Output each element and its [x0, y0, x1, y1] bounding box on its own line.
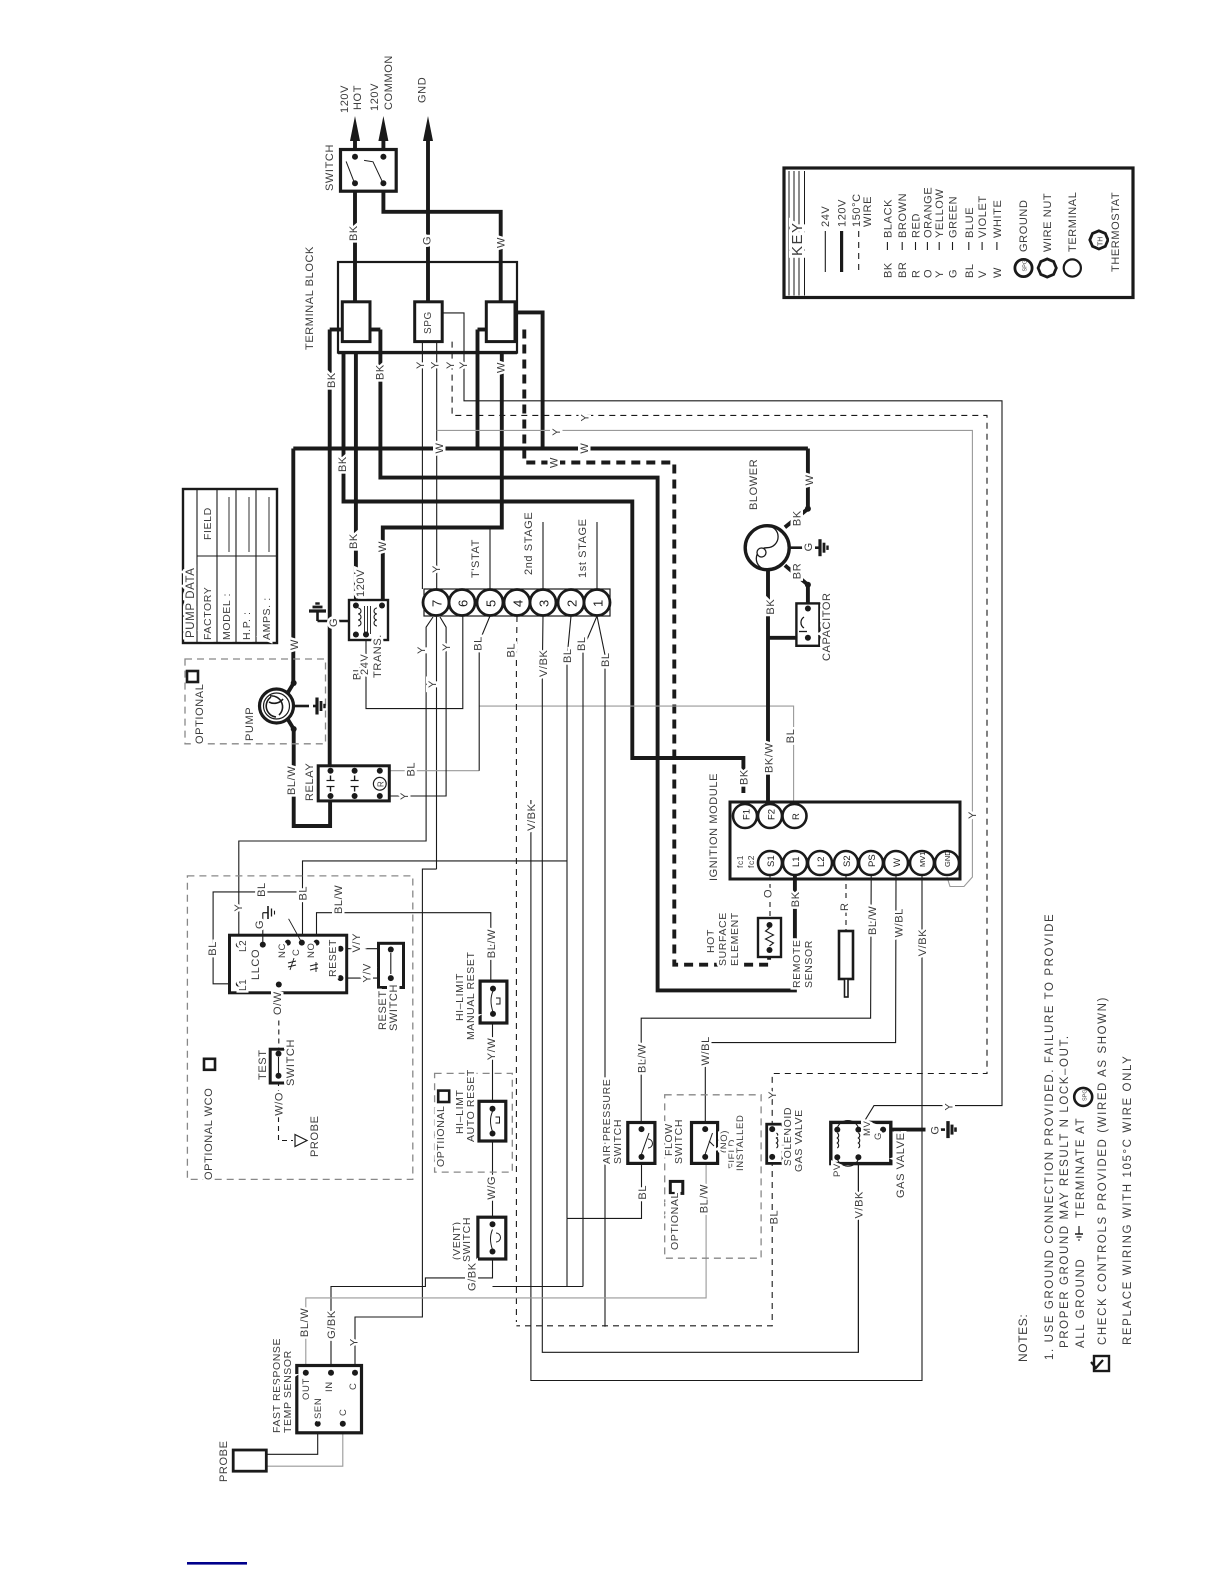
wire BK blower to module F2: [766, 570, 770, 804]
relay: [318, 766, 389, 801]
svg-text:Y: Y: [427, 680, 439, 688]
pump data blank underlines: [228, 497, 230, 552]
note SPG circle: [1074, 1088, 1092, 1106]
svg-text:BL: BL: [600, 652, 612, 667]
svg-text:ORANGE: ORANGE: [922, 187, 934, 238]
wire BK terminal block via bus to ignition module L1: [380, 330, 795, 991]
optional WCO dashed box: [187, 876, 412, 1180]
svg-text:G: G: [328, 618, 340, 627]
svg-text:BK/W: BK/W: [763, 742, 775, 773]
svg-text:120V: 120V: [369, 83, 381, 111]
wire BL horizontal to LLCO C: [303, 861, 568, 943]
svg-text:3: 3: [537, 600, 552, 607]
optional flow switch dashed box: [665, 1095, 761, 1258]
solenoid gas valve: [767, 1124, 783, 1163]
svg-text:fc2: fc2: [746, 855, 756, 868]
svg-text:COMMON: COMMON: [383, 55, 395, 110]
terminal 1: [584, 590, 610, 616]
svg-text:24V: 24V: [359, 654, 371, 675]
svg-text:Y/V: Y/V: [361, 963, 373, 983]
svg-text:Y: Y: [579, 414, 591, 422]
wire 1st stage stub: [596, 522, 598, 590]
svg-text:BL: BL: [964, 263, 976, 278]
svg-text:W/BL: W/BL: [700, 1036, 712, 1065]
key terminal symbol: [1064, 259, 1081, 276]
wire O/W dashed LLCO to test switch: [278, 985, 280, 1053]
svg-text:L2: L2: [238, 940, 249, 952]
svg-text:L1: L1: [791, 856, 802, 867]
svg-text:CAPACITOR: CAPACITOR: [821, 592, 833, 661]
svg-text:SWITCH: SWITCH: [612, 1119, 624, 1164]
flow switch: [692, 1123, 718, 1164]
svg-text:PS: PS: [867, 854, 878, 867]
svg-text:BL: BL: [637, 1185, 649, 1200]
key 120V sample: [840, 231, 843, 272]
svg-text:FACTORY: FACTORY: [202, 587, 214, 640]
wire Y gas valve MV thick ground: [883, 1128, 925, 1132]
svg-text:BK: BK: [882, 262, 894, 278]
svg-text:INSTALLED: INSTALLED: [735, 1115, 746, 1171]
svg-text:OPTIONAL: OPTIONAL: [669, 1192, 681, 1250]
wire W main run pump to blower: [293, 447, 808, 451]
svg-text:TERMINAL BLOCK: TERMINAL BLOCK: [304, 246, 316, 350]
svg-text:WIRE: WIRE: [862, 196, 874, 227]
wire BL junction to ignition module R: [479, 706, 793, 806]
svg-text:W: W: [892, 858, 903, 867]
svg-text:WIRE NUT: WIRE NUT: [1042, 193, 1054, 252]
svg-text:SENSOR: SENSOR: [803, 940, 815, 988]
blower ground G: [789, 546, 806, 549]
arrow 120V COMMON: [381, 135, 385, 157]
svg-text:W: W: [579, 443, 591, 454]
wire sensor bus a to vent: [493, 1286, 584, 1288]
key ground symbol SPG: [1015, 259, 1032, 276]
wire Y relay to terminal 7: [383, 617, 446, 796]
svg-text:120V: 120V: [339, 85, 351, 113]
module terminal F1: [733, 804, 757, 828]
svg-text:O: O: [762, 889, 774, 898]
wire BL/W sensor OUT to flow switch: [306, 1163, 706, 1372]
svg-text:Y: Y: [416, 646, 428, 654]
svg-text:TERMINAL: TERMINAL: [1067, 192, 1079, 252]
svg-text:V/BK: V/BK: [526, 803, 538, 831]
ground symbol at LLCO: [262, 913, 264, 945]
svg-text:MODEL :: MODEL :: [221, 593, 233, 640]
svg-text:W/O: W/O: [274, 1092, 286, 1116]
svg-text:PUMP: PUMP: [244, 707, 256, 741]
svg-text:SEN: SEN: [313, 1398, 324, 1419]
key box: [784, 168, 1133, 298]
vent switch: [478, 1217, 506, 1259]
wire BK terminal block via bus to ignition module F1: [344, 352, 744, 793]
svg-text:SWITCH: SWITCH: [324, 144, 336, 191]
wire BL transformer 24V to terminal 6: [366, 616, 463, 709]
svg-text:RED: RED: [911, 213, 923, 238]
svg-text:BROWN: BROWN: [897, 193, 909, 238]
terminal 2: [558, 590, 584, 616]
svg-text:BLUE: BLUE: [964, 207, 976, 238]
terminal 4: [504, 590, 530, 616]
svg-text:TERMINATE AT: TERMINATE AT: [1075, 1117, 1087, 1218]
svg-text:5: 5: [484, 600, 499, 607]
svg-text:Y: Y: [399, 792, 411, 800]
svg-text:Y: Y: [430, 361, 442, 369]
svg-text:NOTES:: NOTES:: [1016, 1314, 1030, 1362]
svg-text:fc1: fc1: [735, 855, 745, 868]
svg-text:W: W: [289, 639, 301, 650]
arrow 120V HOT: [353, 135, 357, 157]
svg-text:IGNITION MODULE: IGNITION MODULE: [708, 773, 720, 881]
svg-text:BLACK: BLACK: [882, 199, 894, 238]
svg-text:OPTIIONAL: OPTIIONAL: [435, 1106, 447, 1167]
module terminal GND: [935, 851, 959, 875]
test switch: [270, 1049, 287, 1083]
reset switch: [379, 943, 404, 987]
wire BK from switch to terminal block: [353, 183, 357, 302]
svg-text:YELLOW: YELLOW: [934, 189, 946, 238]
svg-text:Y: Y: [458, 361, 470, 369]
module terminal R: [783, 804, 807, 828]
pump motor: [260, 689, 294, 723]
svg-text:PROBE: PROBE: [309, 1115, 321, 1157]
svg-text:L2: L2: [816, 856, 827, 867]
blower pin BR: [785, 565, 808, 585]
pump pin BL/W: [287, 718, 294, 729]
svg-text:Y: Y: [349, 1338, 361, 1346]
svg-text:4: 4: [511, 600, 526, 607]
wire BR blower to capacitor: [806, 585, 810, 609]
svg-text:VIOLET: VIOLET: [977, 195, 989, 238]
wire BK blower junction to capacitor: [767, 636, 808, 640]
svg-text:Y: Y: [967, 811, 979, 819]
svg-text:1st STAGE: 1st STAGE: [577, 518, 589, 578]
svg-text:OPTIONAL: OPTIONAL: [194, 684, 206, 744]
svg-text:PROPER GROUND MAY RESULT N: PROPER GROUND MAY RESULT N LOCK–OUT.: [1059, 1034, 1071, 1348]
gas valve: [831, 1122, 891, 1163]
svg-text:TRANS.: TRANS.: [372, 634, 384, 678]
svg-text:W/G: W/G: [486, 1176, 498, 1200]
terminal block lug 3: [478, 328, 487, 332]
svg-text:120V: 120V: [355, 569, 367, 597]
wire BL/W LLCO NO to hi-limit manual reset: [317, 913, 491, 989]
module terminal S2: [834, 851, 858, 875]
wire Y tee to sensor run: [355, 869, 437, 1373]
svg-text:W/BL: W/BL: [893, 908, 905, 937]
svg-text:C: C: [291, 949, 302, 956]
LLCO NC contact: [288, 961, 296, 963]
wire G/BK vent switch to sensor IN: [331, 1252, 493, 1373]
wire V/Y LLCO reset to reset switch: [341, 948, 391, 950]
svg-text:Y: Y: [943, 1103, 955, 1111]
ground symbol at transformer: [318, 620, 350, 623]
svg-text:Y/W: Y/W: [486, 1038, 498, 1061]
wire Y/W hi-limit manual to auto reset: [492, 1014, 494, 1109]
svg-text:G: G: [873, 1132, 884, 1140]
fast response temp sensor: [297, 1366, 362, 1433]
thermostat terminal strip outline: [424, 589, 610, 616]
module terminal F2: [758, 804, 782, 828]
transformer 24V TRANS: [349, 600, 388, 640]
svg-text:THERMOSTAT: THERMOSTAT: [1110, 192, 1122, 272]
wire BL LLCO L1 loop: [213, 892, 302, 984]
svg-text:Y: Y: [767, 1091, 779, 1099]
blue underline mark: [187, 1562, 247, 1565]
svg-text:V: V: [977, 270, 989, 278]
svg-text:BL/W: BL/W: [299, 1308, 311, 1337]
svg-text:BK: BK: [791, 510, 803, 526]
pump pin W: [287, 683, 294, 694]
svg-text:OUT: OUT: [301, 1378, 312, 1400]
svg-text:V/BK: V/BK: [853, 1191, 865, 1219]
terminal block lug 1: [330, 328, 343, 332]
svg-text:R: R: [791, 813, 802, 820]
wire W riser from terminal block left lug: [476, 330, 480, 449]
terminal block outline: [338, 262, 517, 353]
svg-text:BR: BR: [791, 563, 803, 579]
optional pump dashed box: [185, 659, 326, 744]
wire BL/W module PS to air pressure switch: [641, 876, 871, 1129]
wire V/BK strip3 to gas valve: [542, 616, 858, 1352]
svg-text:W: W: [496, 237, 508, 248]
svg-text:GND: GND: [943, 850, 952, 867]
note checkbox checked: [1094, 1356, 1109, 1371]
svg-text:G: G: [930, 1125, 942, 1134]
ground symbol at gas valve: [934, 1128, 945, 1131]
wire BL relay contact to junction: [383, 770, 479, 772]
svg-text:BL/W: BL/W: [637, 1044, 649, 1073]
relay coil R: [373, 777, 386, 790]
key wire nut symbol: [1038, 259, 1056, 277]
svg-text:O: O: [922, 269, 934, 278]
svg-text:W: W: [377, 541, 389, 552]
wire BL drop to vent bus: [566, 1218, 568, 1286]
wire W/G auto reset to vent switch: [492, 1134, 494, 1225]
wire GND green from arrow to SPG lug: [426, 137, 430, 302]
terminal 6: [449, 590, 475, 616]
wire Y SPG via outer right bus to gas valve MV: [442, 313, 1002, 1131]
svg-text:G/BK: G/BK: [326, 1310, 338, 1339]
svg-text:BK: BK: [348, 533, 360, 549]
svg-text:BK: BK: [375, 364, 387, 380]
terminal 3: [530, 590, 556, 616]
wire BL air pressure switch to strip2 line: [567, 1157, 642, 1219]
svg-text:BL/W: BL/W: [286, 766, 298, 795]
svg-text:S2: S2: [842, 855, 853, 867]
svg-text:TEST: TEST: [257, 1049, 269, 1080]
terminal block lug SPG: [415, 302, 443, 342]
svg-text:BL: BL: [207, 941, 219, 956]
svg-text:GROUND: GROUND: [1018, 200, 1030, 253]
svg-text:1. USE GROUND CONNECTION PR: 1. USE GROUND CONNECTION PROVIDED. FAILU…: [1044, 913, 1056, 1360]
svg-text:G: G: [254, 920, 266, 929]
wire BL dashed strip4 down to solenoid bus: [515, 616, 518, 1322]
svg-text:ALL GROUND: ALL GROUND: [1075, 1258, 1087, 1348]
note ground glyph: [1078, 1226, 1080, 1234]
svg-text:R: R: [911, 269, 923, 278]
wire BL strip2 down: [567, 616, 571, 1218]
optional auto reset dashed box: [435, 1073, 513, 1172]
svg-text:R: R: [839, 902, 851, 911]
probe arrow: [295, 1135, 307, 1147]
svg-text:NO: NO: [306, 943, 317, 958]
svg-text:W: W: [496, 362, 508, 373]
svg-text:SWITCH: SWITCH: [285, 1039, 297, 1086]
svg-text:BK: BK: [348, 225, 360, 241]
svg-text:T'STAT: T'STAT: [470, 539, 482, 578]
svg-text:W: W: [434, 443, 446, 454]
hot surface element: [758, 918, 781, 957]
svg-text:V/BK: V/BK: [917, 929, 929, 957]
svg-text:BL/W: BL/W: [699, 1184, 711, 1213]
wire W terminal block to transformer 120V: [383, 352, 502, 600]
wire W 150C dashed terminal block to hot surface element: [524, 330, 769, 965]
svg-text:NC: NC: [277, 943, 288, 958]
svg-text:REMOTE: REMOTE: [791, 939, 803, 988]
svg-text:BL/W: BL/W: [486, 929, 498, 958]
svg-text:W: W: [549, 457, 561, 468]
module terminal S1: [758, 851, 782, 875]
svg-text:W: W: [804, 475, 816, 486]
hi-limit auto reset switch: [479, 1101, 506, 1141]
wire probe to sensor C gray: [266, 1427, 343, 1466]
svg-text:BK: BK: [738, 769, 750, 785]
module terminal PS: [859, 851, 883, 875]
svg-text:BL: BL: [562, 648, 574, 663]
pump ground G: [294, 705, 310, 708]
svg-text:GAS VALVE: GAS VALVE: [895, 1132, 907, 1198]
wire 2nd stage stub: [542, 522, 544, 590]
LLCO C lever: [289, 919, 302, 943]
svg-text:SPG: SPG: [423, 311, 434, 334]
checkbox optional WCO: [204, 1059, 215, 1070]
svg-text:LLCO: LLCO: [250, 949, 262, 980]
svg-text:SWITCH: SWITCH: [461, 1217, 473, 1262]
key 150C wire sample: [858, 231, 860, 272]
key 24V sample: [824, 231, 826, 272]
svg-text:HOT: HOT: [352, 85, 364, 110]
svg-text:Y: Y: [551, 428, 563, 436]
svg-text:GND: GND: [417, 77, 429, 103]
svg-text:WHITE: WHITE: [992, 200, 1004, 238]
wire BL strip1 to sensor bus a: [583, 616, 597, 1287]
svg-text:MANUAL RESET: MANUAL RESET: [465, 952, 477, 1041]
svg-text:L1: L1: [238, 979, 249, 991]
wire Y gray bus SPG to ignition module GND: [437, 430, 973, 886]
svg-text:RESET: RESET: [327, 939, 339, 977]
wire 120V COMMON from switch down-right to terminal block W lug: [383, 183, 500, 302]
svg-text:PROBE: PROBE: [218, 1440, 230, 1482]
svg-text:RELAY: RELAY: [304, 763, 316, 801]
wire Y SPG down to strip: [421, 342, 423, 589]
svg-text:H.P. :: H.P. :: [241, 611, 253, 640]
svg-text:GREEN: GREEN: [948, 196, 960, 238]
svg-text:BLOWER: BLOWER: [748, 459, 760, 510]
hi-limit manual reset switch: [480, 981, 507, 1023]
svg-text:PUMP DATA: PUMP DATA: [185, 567, 197, 638]
svg-text:BL: BL: [473, 636, 485, 651]
wire R dashed S2 to remote sensor: [845, 875, 847, 931]
arrow GND: [423, 116, 433, 141]
svg-text:GAS VALVE: GAS VALVE: [793, 1109, 805, 1172]
svg-text:SWITCH: SWITCH: [673, 1119, 685, 1164]
wire BK terminal block to transformer 120V: [354, 352, 358, 600]
air pressure switch: [628, 1123, 655, 1164]
svg-text:SURFACE: SURFACE: [717, 912, 729, 966]
svg-text:BK: BK: [337, 456, 349, 472]
svg-text:1: 1: [591, 600, 606, 607]
svg-text:SPG: SPG: [1023, 260, 1029, 272]
checkbox optional flow: [670, 1181, 683, 1193]
wire T'STAT stub: [489, 528, 491, 590]
wire Y/V LLCO reset to reset switch: [341, 977, 391, 979]
wire probe to sensor SEN: [266, 1427, 317, 1454]
svg-text:PV: PV: [832, 1163, 843, 1177]
terminal 7: [423, 590, 449, 616]
svg-text:G: G: [803, 542, 815, 551]
svg-text:CHECK CONTROLS PROVIDED (WI: CHECK CONTROLS PROVIDED (WIRED AS SHOWN): [1097, 996, 1109, 1345]
svg-text:BL: BL: [256, 882, 268, 897]
svg-text:Y: Y: [934, 270, 946, 278]
wire W drop to pump: [291, 449, 295, 684]
svg-text:BL: BL: [406, 762, 418, 777]
svg-text:7: 7: [430, 600, 445, 607]
svg-text:V/Y: V/Y: [351, 933, 363, 953]
checkbox optional auto reset: [438, 1091, 449, 1102]
remote sensor: [839, 931, 853, 979]
switch SWITCH disconnect: [341, 150, 397, 192]
svg-text:SWITCH: SWITCH: [388, 984, 400, 1031]
wire O dashed S1 to hot surface element: [769, 875, 771, 920]
checkbox optional pump: [187, 671, 198, 682]
module terminal W: [884, 851, 908, 875]
svg-text:G: G: [422, 236, 434, 245]
wire Y dashed SPG via right bus to solenoid gas valve: [452, 342, 987, 1125]
svg-text:Y: Y: [445, 361, 457, 369]
svg-text:W: W: [992, 267, 1004, 278]
svg-text:Y: Y: [441, 643, 453, 651]
svg-text:FIELD: FIELD: [202, 507, 214, 540]
svg-text:F2: F2: [767, 809, 778, 820]
ignition module box: [730, 802, 960, 879]
svg-text:BR: BR: [897, 262, 909, 278]
svg-text:OPTIONAL WCO: OPTIONAL WCO: [203, 1088, 215, 1180]
svg-text:C: C: [348, 1383, 359, 1390]
svg-text:F1: F1: [742, 809, 753, 820]
blower pin BK: [785, 509, 808, 528]
svg-text:BL: BL: [298, 886, 310, 901]
wire Y SPG to thermostat stub: [436, 342, 438, 590]
svg-text:KEY: KEY: [789, 221, 806, 256]
svg-text:2nd STAGE: 2nd STAGE: [523, 512, 535, 575]
terminal 5: [477, 590, 503, 616]
svg-text:BL: BL: [768, 1210, 780, 1225]
svg-text:Y: Y: [415, 361, 427, 369]
svg-text:24V: 24V: [820, 206, 832, 227]
svg-text:O/W: O/W: [272, 991, 284, 1015]
wire W/BL module W to flow switch: [705, 875, 896, 1129]
svg-text:2: 2: [565, 600, 580, 607]
svg-text:ELEMENT: ELEMENT: [729, 912, 741, 966]
module terminal MV1: [910, 851, 934, 875]
svg-text:BK: BK: [790, 891, 802, 907]
svg-text:R: R: [377, 781, 386, 787]
module terminal L2: [808, 851, 832, 875]
svg-text:BL: BL: [785, 729, 797, 744]
svg-text:Y: Y: [233, 904, 245, 912]
svg-text:120V: 120V: [837, 199, 849, 227]
svg-text:G: G: [948, 269, 960, 278]
wire Y LLCO L2 run: [239, 617, 433, 945]
